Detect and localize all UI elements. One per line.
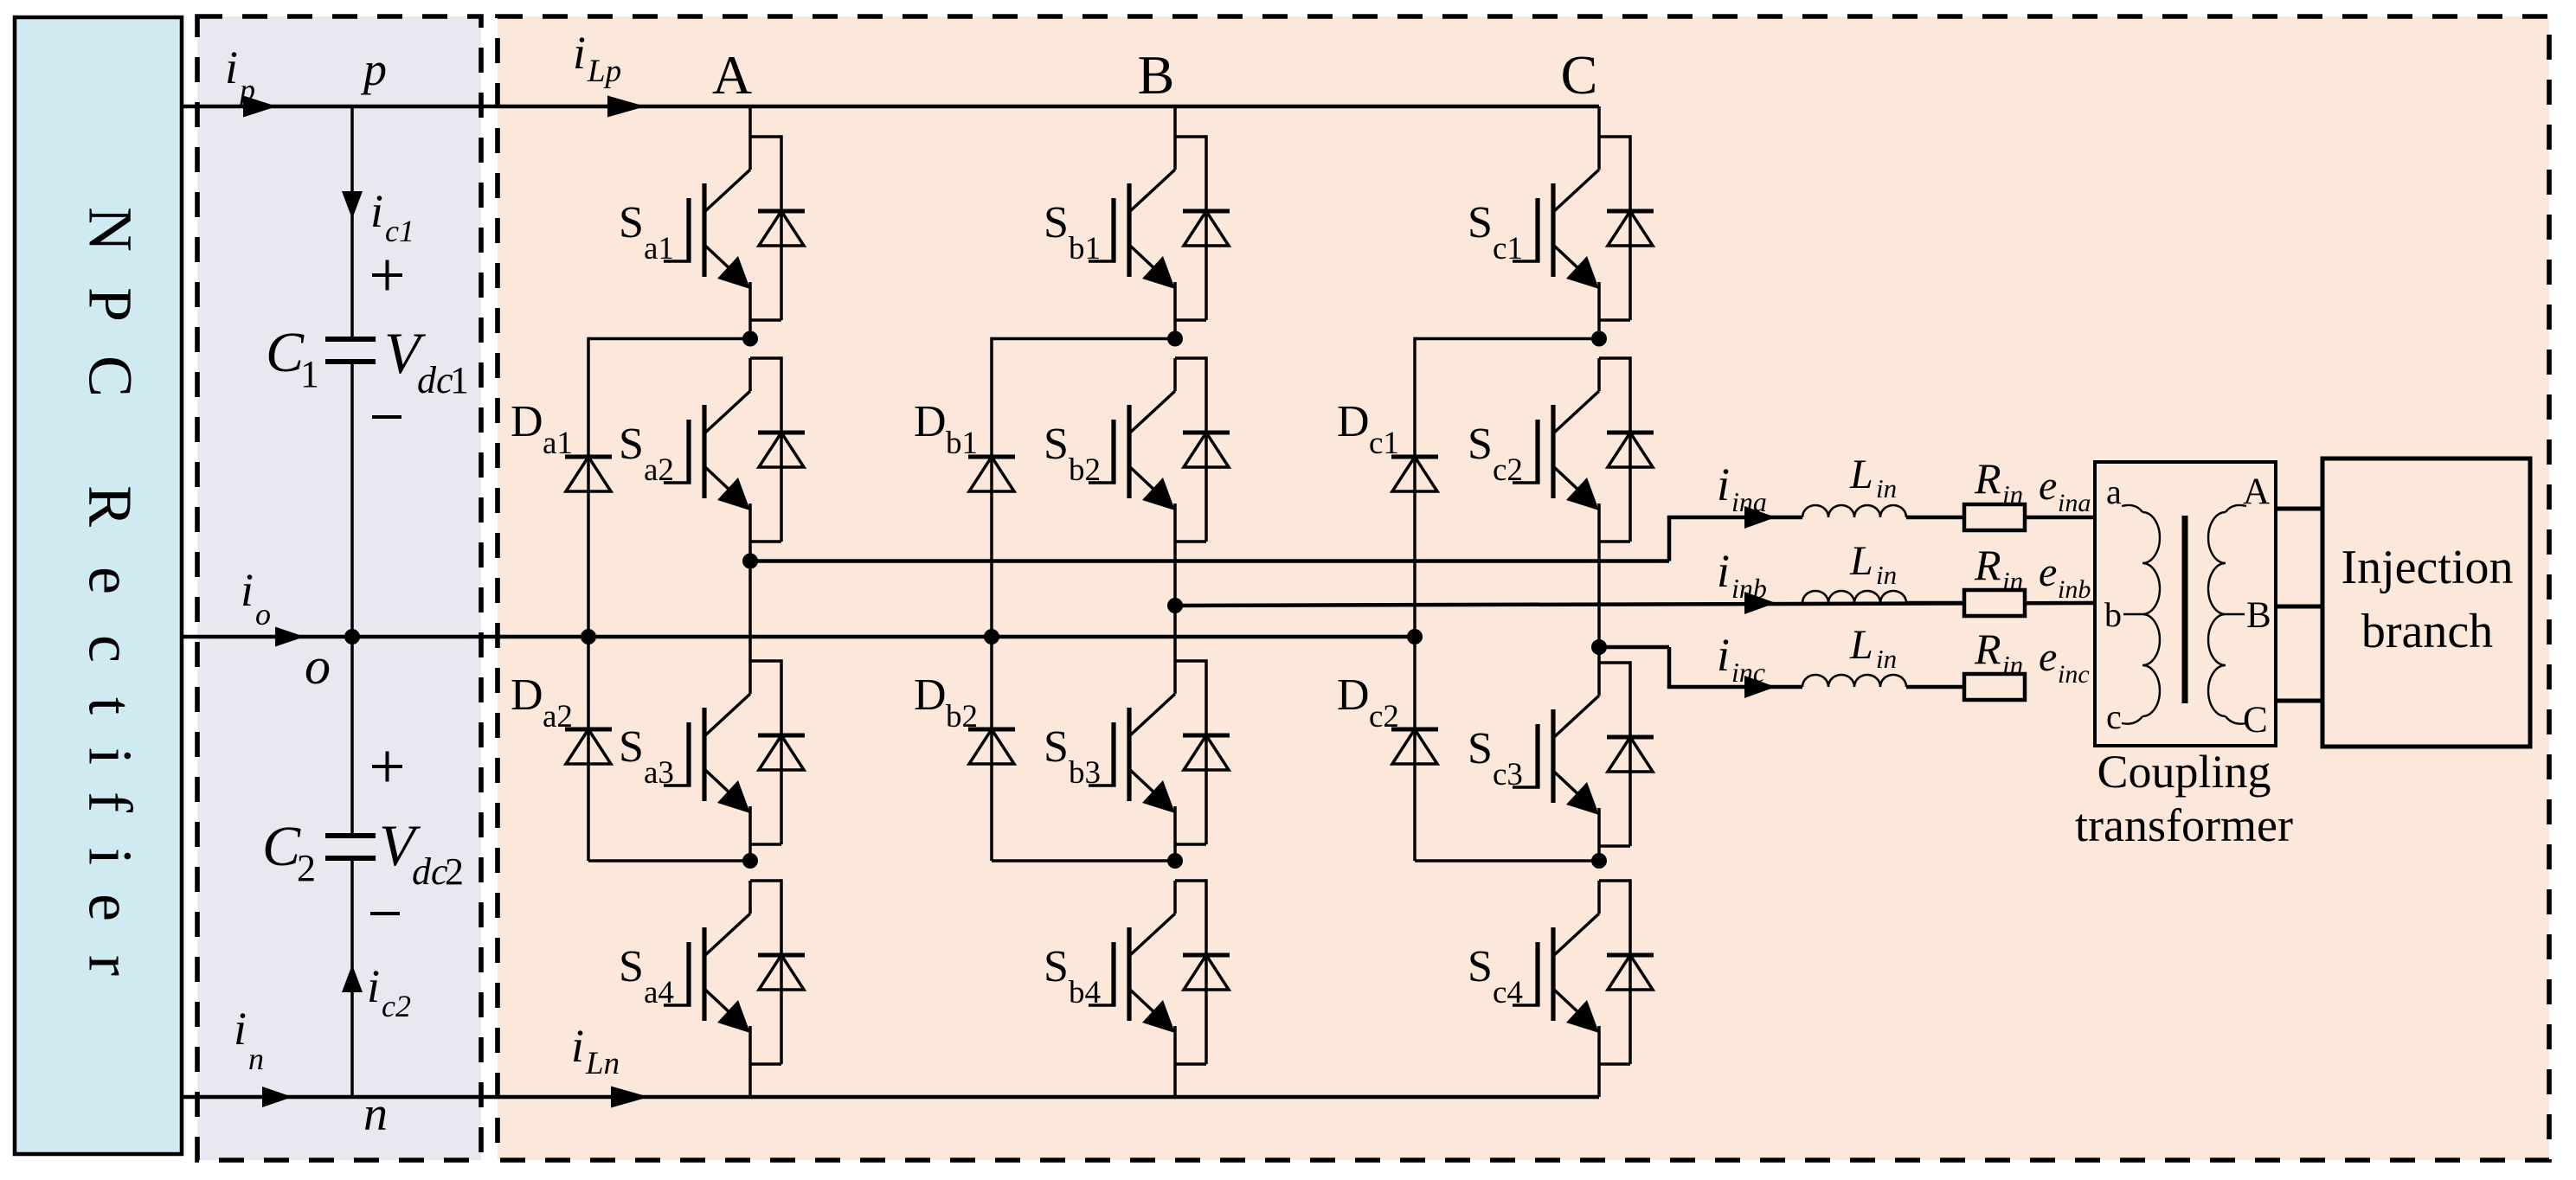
svg-text:in: in — [1876, 560, 1897, 590]
label Da2 — [511, 670, 573, 734]
label R_in (a) — [1974, 454, 2023, 510]
wire Dc2 branch — [1413, 637, 1416, 861]
wire C2 to n — [350, 858, 354, 1097]
label i_Ln — [571, 1020, 620, 1081]
diode Db2 — [968, 729, 1015, 764]
resistor R_in (a) — [1964, 504, 2025, 530]
wire i_ina line — [1667, 516, 1802, 520]
label i_p — [225, 42, 255, 107]
svg-text:a4: a4 — [644, 975, 674, 1010]
svg-text:inc: inc — [1731, 657, 1765, 688]
svg-text:i: i — [370, 185, 383, 237]
resistor R_in (c) — [1964, 674, 2025, 700]
arrow i_inc — [1744, 676, 1776, 698]
inductor L_in (b) — [1802, 591, 1906, 603]
svg-text:inb: inb — [1731, 573, 1767, 604]
svg-text:o: o — [255, 597, 271, 632]
svg-text:B: B — [2246, 595, 2271, 636]
svg-text:ina: ina — [2058, 489, 2091, 517]
svg-text:R: R — [1974, 454, 2001, 503]
wire p to C1 — [350, 106, 354, 339]
svg-text:C: C — [266, 321, 305, 384]
node B output junction — [1167, 598, 1183, 613]
wire L_in lead (b) — [1906, 601, 1964, 606]
svg-text:in: in — [1876, 473, 1897, 503]
inverter dashed box — [498, 16, 2549, 1160]
label i_c2 — [367, 960, 411, 1023]
svg-text:C: C — [1561, 44, 1598, 106]
svg-text:e: e — [2039, 463, 2057, 509]
wire R_in to transformer (a) — [2025, 516, 2095, 520]
label C (secondary) — [2243, 700, 2268, 741]
wire o-bus — [182, 635, 1415, 639]
svg-text:S: S — [619, 198, 644, 247]
label Dc2 — [1337, 670, 1399, 734]
wire transformer to injection A — [2276, 507, 2323, 511]
svg-text:c2: c2 — [1493, 452, 1523, 488]
transistor Sb3 (IGBT + antiparallel diode) — [1089, 659, 1230, 861]
svg-text:b3: b3 — [1069, 755, 1101, 791]
svg-text:i: i — [1717, 459, 1730, 510]
node Dc o-junction — [1407, 629, 1423, 645]
svg-text:in: in — [1876, 644, 1897, 674]
DC-link dashed box — [197, 16, 481, 1160]
svg-text:a2: a2 — [543, 699, 573, 734]
node B junction Sb1/Sb2 — [1167, 331, 1183, 347]
transformer primary winding — [2122, 505, 2160, 724]
svg-text:b2: b2 — [1069, 452, 1101, 488]
svg-text:S: S — [619, 942, 644, 991]
label i_inb — [1717, 545, 1767, 604]
svg-text:n: n — [248, 1042, 264, 1076]
label Db1 — [914, 397, 978, 461]
wire Db1 top — [992, 337, 1175, 341]
capacitor C2 — [325, 836, 376, 858]
svg-text:R: R — [1974, 541, 2001, 589]
label Sb3 — [1044, 722, 1101, 791]
wire Da2 branch — [587, 637, 590, 861]
label A (secondary) — [2243, 471, 2270, 512]
wire Db2 bottom — [992, 859, 1175, 863]
label + (C2) — [372, 752, 402, 782]
wire Da2 bottom — [588, 859, 750, 863]
svg-text:S: S — [1044, 722, 1069, 772]
svg-text:Lp: Lp — [587, 54, 621, 89]
label a — [2106, 472, 2122, 511]
wire C bus to Sc1 — [1597, 106, 1601, 137]
svg-text:a: a — [2106, 472, 2122, 511]
node A junction Sa1/Sa2 — [742, 331, 758, 347]
arrow i_inb — [1744, 592, 1776, 614]
arrow i_p — [243, 96, 277, 118]
svg-text:r: r — [75, 955, 145, 976]
svg-text:P: P — [75, 287, 145, 322]
svg-text:D: D — [914, 397, 947, 446]
NPC Rectifier label (vertical) — [75, 207, 145, 976]
node label n — [363, 1087, 388, 1141]
svg-text:S: S — [1468, 942, 1493, 991]
wire C junction to Sc3 — [1597, 647, 1601, 663]
node Db o-junction — [984, 629, 999, 645]
svg-text:o: o — [305, 638, 331, 695]
label Sc4 — [1468, 942, 1523, 1010]
svg-text:i: i — [367, 960, 380, 1012]
wire i_inc line — [1667, 685, 1802, 689]
svg-text:S: S — [1468, 198, 1493, 247]
label b — [2104, 595, 2122, 634]
label i_c1 — [370, 185, 414, 248]
diode Dc1 — [1391, 457, 1438, 491]
svg-text:b1: b1 — [1069, 231, 1101, 266]
transistor Sb4 (IGBT + antiparallel diode) — [1089, 879, 1230, 1097]
label L_in (b) — [1849, 538, 1897, 590]
label Dc1 — [1337, 397, 1399, 461]
wire Da1 top — [588, 337, 750, 341]
svg-text:1: 1 — [450, 359, 469, 401]
wire p-bus — [182, 105, 1599, 109]
svg-text:inb: inb — [2058, 575, 2091, 604]
svg-text:c2: c2 — [382, 989, 411, 1023]
svg-text:e: e — [2039, 549, 2057, 595]
label Sa1 — [619, 198, 674, 266]
label i_o — [241, 564, 271, 632]
label C1 — [266, 321, 319, 395]
svg-text:e: e — [75, 894, 145, 921]
svg-text:C: C — [262, 815, 301, 878]
transformer secondary winding — [2208, 505, 2246, 724]
label Sc1 — [1468, 198, 1523, 266]
node A junction Sa3/Sa4 — [742, 853, 758, 869]
svg-text:b4: b4 — [1069, 975, 1101, 1010]
svg-text:C: C — [75, 356, 145, 397]
svg-text:2: 2 — [297, 847, 316, 889]
node C output junction — [1591, 639, 1607, 655]
svg-text:S: S — [619, 420, 644, 469]
wire Dc2 bottom — [1415, 859, 1599, 863]
transistor Sc3 (IGBT + antiparallel diode) — [1513, 661, 1654, 861]
label e_inb — [2039, 549, 2091, 604]
label L_in (a) — [1849, 452, 1897, 503]
wire Db1 branch — [990, 337, 993, 637]
transistor Sa1 (IGBT + antiparallel diode) — [664, 135, 805, 338]
wire transformer to injection C — [2276, 699, 2323, 703]
svg-text:c1: c1 — [1493, 231, 1523, 266]
wire Dc1 top — [1415, 337, 1599, 341]
svg-text:B: B — [1138, 44, 1175, 106]
NPC Rectifier block — [15, 17, 182, 1154]
arrow i_Lp — [607, 96, 646, 118]
label V_dc2 — [379, 812, 464, 893]
svg-text:e: e — [2039, 634, 2057, 680]
svg-text:e: e — [75, 567, 145, 594]
label Sc3 — [1468, 724, 1523, 792]
svg-text:inc: inc — [2058, 660, 2090, 689]
label R_in (b) — [1974, 541, 2023, 596]
node C junction Sc1/Sc2 — [1591, 331, 1607, 347]
label R_in (c) — [1974, 625, 2023, 680]
svg-text:S: S — [619, 722, 644, 772]
svg-text:1: 1 — [300, 353, 319, 395]
transistor Sa2 (IGBT + antiparallel diode) — [664, 356, 805, 561]
node o dot — [344, 629, 360, 645]
label Db2 — [914, 670, 978, 734]
svg-text:D: D — [1337, 670, 1370, 720]
label Da1 — [511, 397, 573, 461]
transistor Sa3 (IGBT + antiparallel diode) — [664, 659, 805, 861]
label Sc2 — [1468, 420, 1523, 488]
wire A junction to Sa3 — [748, 561, 752, 662]
svg-text:i: i — [75, 848, 145, 865]
svg-text:p: p — [360, 43, 387, 95]
label Injection branch — [2341, 541, 2513, 658]
svg-text:Coupling: Coupling — [2097, 746, 2271, 798]
node Da o-junction — [581, 629, 596, 645]
transistor Sc1 (IGBT + antiparallel diode) — [1513, 135, 1654, 338]
svg-text:R: R — [75, 485, 145, 527]
label Coupling transformer — [2075, 746, 2293, 851]
svg-text:c3: c3 — [1493, 757, 1523, 792]
svg-text:b1: b1 — [946, 426, 978, 461]
arrow i_Ln — [611, 1087, 649, 1108]
svg-text:D: D — [511, 670, 543, 720]
wire phase A output jog — [1667, 517, 1672, 561]
transistor Sb2 (IGBT + antiparallel diode) — [1089, 356, 1230, 606]
svg-text:c2: c2 — [1369, 699, 1399, 734]
svg-text:Ln: Ln — [585, 1046, 620, 1081]
svg-text:a1: a1 — [644, 231, 674, 266]
svg-text:dc: dc — [417, 359, 453, 401]
label c — [2106, 697, 2122, 736]
wire phase B output — [1175, 603, 2095, 606]
label i_ina — [1717, 459, 1767, 517]
wire B bus to Sb1 — [1173, 106, 1177, 137]
wire n-bus — [182, 1095, 1599, 1100]
node A output junction — [742, 554, 758, 569]
transistor Sc4 (IGBT + antiparallel diode) — [1513, 879, 1654, 1097]
label Sa3 — [619, 722, 674, 791]
inductor L_in (a) — [1802, 505, 1906, 517]
svg-text:transformer: transformer — [2075, 799, 2293, 851]
label Sb4 — [1044, 942, 1101, 1010]
svg-text:dc: dc — [412, 850, 448, 893]
wire Dc1 branch — [1413, 337, 1416, 637]
svg-text:S: S — [1044, 198, 1069, 247]
node label A — [712, 44, 752, 106]
svg-text:L: L — [1849, 452, 1873, 497]
resistor R_in (b) — [1964, 590, 2025, 616]
label Sb1 — [1044, 198, 1101, 266]
label e_inc — [2039, 634, 2090, 689]
svg-text:c4: c4 — [1493, 975, 1523, 1010]
arrow i_o — [275, 627, 305, 647]
svg-text:i: i — [234, 1003, 247, 1055]
Injection branch box — [2322, 459, 2530, 747]
svg-text:c: c — [75, 635, 145, 663]
node label B — [1138, 44, 1175, 106]
svg-text:i: i — [75, 747, 145, 765]
svg-text:in: in — [2002, 650, 2023, 680]
transformer core — [2182, 516, 2188, 703]
wire phase C output jog — [1667, 647, 1672, 687]
svg-text:t: t — [75, 697, 145, 715]
node label C — [1561, 44, 1598, 106]
label e_ina — [2039, 463, 2091, 517]
wire transformer to injection B — [2276, 605, 2323, 609]
svg-text:branch: branch — [2361, 605, 2493, 658]
svg-text:ina: ina — [1731, 486, 1767, 517]
diode Da2 — [565, 729, 612, 764]
arrow i_n — [262, 1087, 292, 1107]
svg-text:a2: a2 — [644, 452, 674, 488]
arrow i_c2 — [342, 965, 363, 992]
svg-text:A: A — [2243, 471, 2270, 512]
svg-text:c1: c1 — [385, 214, 414, 248]
svg-text:b: b — [2104, 595, 2122, 634]
label L_in (c) — [1849, 622, 1897, 674]
transistor Sc2 (IGBT + antiparallel diode) — [1513, 356, 1654, 647]
diode Da1 — [565, 457, 612, 491]
svg-text:n: n — [363, 1087, 388, 1141]
svg-text:L: L — [1849, 622, 1873, 668]
svg-text:i: i — [241, 564, 254, 616]
diode Dc2 — [1391, 729, 1438, 764]
svg-text:i: i — [1717, 629, 1730, 681]
capacitor C1 — [325, 339, 376, 362]
svg-text:N: N — [75, 207, 145, 252]
svg-text:c: c — [2106, 697, 2122, 736]
svg-text:p: p — [237, 73, 255, 107]
node C junction Sc3/Sc4 — [1591, 853, 1607, 869]
wire C1 to C2 — [350, 362, 354, 836]
wire Da1 branch — [587, 337, 590, 637]
wire phase C output — [1599, 645, 1669, 650]
svg-text:R: R — [1974, 625, 2001, 673]
label - (C2) — [370, 912, 400, 915]
svg-text:i: i — [573, 27, 586, 79]
wire Db2 branch — [990, 637, 993, 861]
svg-text:S: S — [1468, 420, 1493, 469]
svg-text:a3: a3 — [644, 755, 674, 791]
wire A bus to Sa1 — [748, 106, 752, 137]
arrow i_ina — [1744, 506, 1776, 529]
svg-text:C: C — [2243, 700, 2268, 741]
wire B junction to Sb3 — [1173, 606, 1177, 661]
transistor Sb1 (IGBT + antiparallel diode) — [1089, 135, 1230, 338]
node label p — [360, 43, 387, 95]
label i_n — [234, 1003, 264, 1076]
diode Db1 — [968, 457, 1015, 491]
svg-text:L: L — [1849, 538, 1873, 584]
svg-text:S: S — [1044, 420, 1069, 469]
label Sa4 — [619, 942, 674, 1010]
wire L_in to R_in (c) — [1906, 685, 1964, 689]
svg-text:c1: c1 — [1369, 426, 1399, 461]
node label o — [305, 638, 331, 695]
label - (C1) — [372, 415, 401, 419]
svg-text:i: i — [571, 1020, 584, 1072]
svg-text:i: i — [225, 42, 238, 93]
svg-text:D: D — [914, 670, 947, 720]
label i_inc — [1717, 629, 1765, 688]
label C2 — [262, 815, 316, 889]
wire L_in to R_in (a) — [1906, 516, 1964, 520]
label Sa2 — [619, 420, 674, 488]
svg-text:S: S — [1468, 724, 1493, 773]
label Sb2 — [1044, 420, 1101, 488]
transistor Sa4 (IGBT + antiparallel diode) — [664, 879, 805, 1097]
label + (C1) — [372, 260, 402, 291]
svg-text:D: D — [1337, 397, 1370, 446]
node B junction Sb3/Sb4 — [1167, 853, 1183, 869]
label i_Lp — [573, 27, 621, 89]
svg-text:i: i — [1717, 545, 1730, 597]
svg-text:b2: b2 — [946, 699, 978, 734]
svg-text:a1: a1 — [543, 426, 573, 461]
inductor L_in (c) — [1802, 675, 1906, 687]
transformer box — [2095, 462, 2276, 746]
svg-text:D: D — [511, 397, 543, 446]
label B (secondary) — [2246, 595, 2271, 636]
svg-text:in: in — [2002, 566, 2023, 596]
wire phase A output — [750, 559, 1669, 563]
svg-text:in: in — [2002, 479, 2023, 510]
svg-text:A: A — [712, 44, 752, 106]
svg-text:2: 2 — [445, 850, 464, 893]
label V_dc1 — [384, 320, 469, 401]
svg-text:Injection: Injection — [2341, 541, 2513, 594]
svg-text:f: f — [75, 792, 145, 812]
arrow i_c1 — [342, 191, 363, 219]
svg-text:S: S — [1044, 942, 1069, 991]
